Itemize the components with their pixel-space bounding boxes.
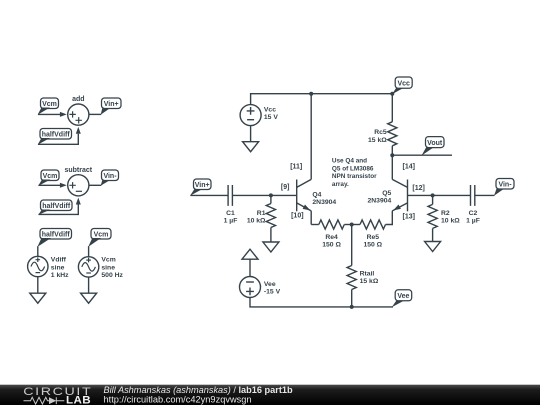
node junction Rtail bottom: [350, 305, 354, 309]
node label Vin- (subtractor output): [101, 170, 119, 186]
wire Vcm to adder with arrowhead: [38, 112, 67, 117]
svg-text:[12]: [12]: [412, 185, 424, 192]
resistor Re5 150 Ohm: [360, 220, 386, 249]
svg-text:halfVdiff: halfVdiff: [42, 231, 71, 238]
resistor R1 10 kOhm: [247, 195, 276, 242]
wire Vcm to subtractor with arrowhead: [39, 183, 67, 188]
node label Vcc (flag): [392, 77, 412, 94]
wire Vdiff source to ground: [37, 277, 39, 294]
node label Vin+ (adder output): [101, 98, 121, 115]
svg-text:array.: array.: [332, 181, 349, 188]
op subtract summer U-sub: [64, 167, 92, 196]
node label Vin+ (main input flag): [190, 179, 211, 196]
node label Vout (flag): [422, 137, 445, 156]
svg-text:[13]: [13]: [403, 214, 415, 221]
wire Q4 collector vertical: [310, 94, 312, 180]
ground (Vcc): [243, 142, 259, 152]
resistor Re4 150 Ohm: [319, 220, 345, 249]
node label Vin- (main flag): [494, 179, 514, 196]
voltage source Vcm sine 500 Hz: [78, 257, 123, 279]
svg-text:R2: R2: [441, 210, 450, 217]
svg-text:Vin-: Vin-: [498, 181, 512, 188]
svg-text:15 kΩ: 15 kΩ: [368, 137, 387, 144]
wire Re4 to junction: [344, 224, 360, 226]
wire halfVdiff to subtractor bottom with arrowhead: [39, 198, 81, 215]
op add summer U-add: [68, 96, 89, 125]
svg-text:Vcm: Vcm: [43, 173, 58, 180]
svg-text:C2: C2: [469, 210, 478, 217]
voltage source Vee -15 V: [240, 277, 281, 298]
capacitor C2 1 uF: [466, 185, 480, 224]
svg-text:[14]: [14]: [403, 163, 415, 170]
svg-text:1 µF: 1 µF: [466, 217, 480, 224]
svg-text:subtract: subtract: [64, 167, 92, 174]
wire Q5 base to C2: [408, 194, 471, 196]
wire halfVdiff flag to Vdiff source: [37, 246, 39, 256]
svg-text:Vin+: Vin+: [104, 101, 119, 108]
svg-text:Rc5: Rc5: [374, 129, 387, 136]
wire adder output: [89, 113, 101, 115]
resistor Rc5 15 kOhm: [368, 94, 397, 156]
resistor Rtail 15 kOhm: [347, 225, 379, 307]
node junction top rail / Q4 collector: [309, 92, 313, 96]
wire Vcc source to ground: [250, 126, 252, 142]
svg-text:Vin-: Vin-: [103, 173, 117, 180]
svg-text:1 µF: 1 µF: [224, 217, 238, 224]
annotation: Use Q4 and Q5 of LM3086 NPN transistor array.: [332, 158, 377, 188]
transistor Q4 2N3904: [297, 179, 337, 224]
voltage source Vdiff sine 1 kHz: [28, 256, 70, 279]
svg-text:Q5 of LM3086: Q5 of LM3086: [332, 165, 374, 172]
wire Vin+ to C1: [190, 194, 228, 196]
wire Q4 emitter to Re4: [311, 224, 319, 226]
node junction R1 top: [269, 193, 273, 197]
node label Vcm (source flag): [88, 229, 111, 247]
svg-text:[9]: [9]: [281, 184, 290, 191]
svg-text:Re4: Re4: [325, 234, 338, 241]
node label Vcm (add input): [38, 98, 59, 115]
svg-text:C1: C1: [226, 210, 235, 217]
svg-text:150 Ω: 150 Ω: [363, 242, 382, 249]
wire Vout: [392, 154, 452, 156]
wire Vcc top rail: [251, 94, 393, 105]
capacitor C1 1 uF: [224, 185, 238, 224]
voltage source Vcc 15 V: [240, 105, 278, 126]
node label Vee (flag): [392, 290, 412, 308]
node junction Rc5 bottom / Q5 collector / Vout: [390, 153, 394, 157]
svg-text:sine: sine: [51, 264, 65, 271]
svg-text:Q4: Q4: [312, 191, 321, 198]
svg-text:halfVdiff: halfVdiff: [42, 131, 71, 138]
svg-text:Vin+: Vin+: [195, 182, 210, 189]
svg-text:Vee: Vee: [397, 293, 409, 300]
node junction rail end / Rc5 top: [390, 92, 394, 96]
svg-text:-15 V: -15 V: [264, 288, 281, 295]
svg-text:Vee: Vee: [264, 281, 276, 288]
svg-text:add: add: [72, 96, 84, 103]
svg-text:http://circuitlab.com/c42yn9zq: http://circuitlab.com/c42yn9zqvwsgn: [104, 394, 252, 404]
wire Re5 to Q5 emitter: [386, 211, 393, 225]
node junction R2 top: [431, 193, 435, 197]
svg-text:Bill Ashmanskas (ashmanskas) /: Bill Ashmanskas (ashmanskas) / lab16 par…: [104, 385, 293, 395]
ground (Vdiff): [30, 293, 46, 303]
svg-text:Vcc: Vcc: [397, 80, 410, 87]
ground (Vcm source): [81, 293, 97, 303]
svg-text:500 Hz: 500 Hz: [101, 272, 123, 279]
svg-text:LAB: LAB: [66, 394, 91, 405]
svg-text:[10]: [10]: [291, 213, 303, 220]
node label Vcm (subtract input): [38, 170, 59, 186]
svg-text:10 kΩ: 10 kΩ: [247, 217, 266, 224]
node junction Re4/Re5/Rtail: [350, 223, 354, 227]
node label halfVdiff (source flag): [37, 229, 71, 247]
svg-text:2N3904: 2N3904: [367, 198, 391, 205]
transistor Q5 2N3904: [367, 155, 407, 211]
svg-text:1 kHz: 1 kHz: [51, 272, 69, 279]
resistor R2 10 kOhm: [428, 195, 460, 241]
svg-text:Q5: Q5: [382, 190, 391, 197]
ground (R1): [263, 242, 279, 252]
svg-text:R1: R1: [257, 210, 266, 217]
wire Vee bottom rail: [250, 298, 393, 307]
svg-text:Use Q4 and: Use Q4 and: [332, 158, 367, 165]
wire halfVdiff to adder bottom with arrowhead: [38, 127, 81, 144]
wire C2 to Vin-: [475, 194, 495, 196]
svg-text:[11]: [11]: [290, 163, 302, 170]
svg-text:Vcc: Vcc: [264, 107, 276, 114]
svg-text:Vout: Vout: [427, 140, 443, 147]
wire Vee source to ground (up): [249, 259, 251, 276]
svg-text:2N3904: 2N3904: [312, 199, 336, 206]
ground (Vee, pointing up): [242, 249, 258, 259]
svg-text:Vdiff: Vdiff: [51, 257, 67, 264]
wire C1 to Q4 base: [232, 194, 296, 196]
svg-text:15 kΩ: 15 kΩ: [360, 278, 379, 285]
svg-text:Vcm: Vcm: [94, 231, 109, 238]
svg-text:sine: sine: [101, 264, 115, 271]
svg-text:Vcm: Vcm: [101, 257, 115, 264]
svg-text:halfVdiff: halfVdiff: [42, 203, 71, 210]
svg-text:Rtail: Rtail: [360, 271, 375, 278]
svg-text:Re5: Re5: [367, 234, 380, 241]
wire subtractor output: [89, 184, 101, 186]
svg-text:150 Ω: 150 Ω: [322, 242, 341, 249]
node label halfVdiff (subtract input): [38, 200, 72, 215]
svg-text:10 kΩ: 10 kΩ: [441, 217, 460, 224]
wire Vcm flag to Vcm source: [88, 246, 90, 257]
ground (R2): [425, 242, 441, 252]
svg-text:NPN transistor: NPN transistor: [332, 173, 377, 180]
svg-text:15 V: 15 V: [264, 114, 278, 121]
node label halfVdiff (add input): [38, 129, 72, 145]
svg-text:Vcm: Vcm: [42, 101, 57, 108]
wire Vcm source to ground: [88, 277, 90, 293]
